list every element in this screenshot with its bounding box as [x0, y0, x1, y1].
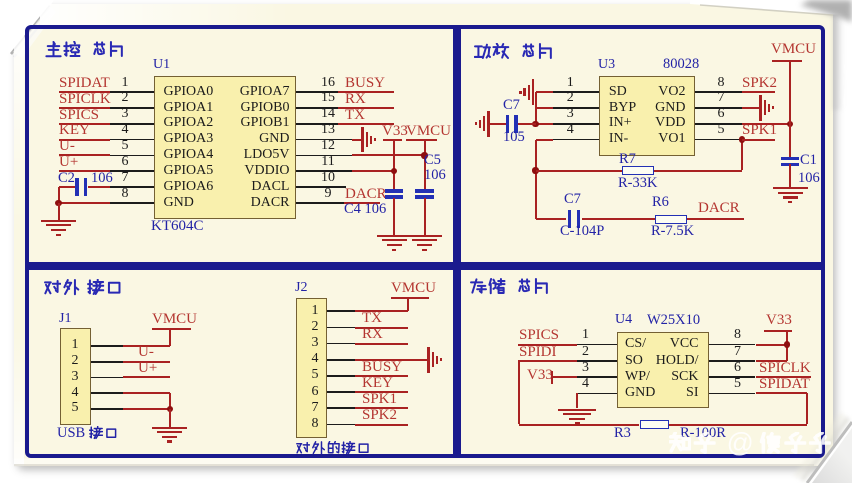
svg-text:@: @: [727, 427, 754, 457]
